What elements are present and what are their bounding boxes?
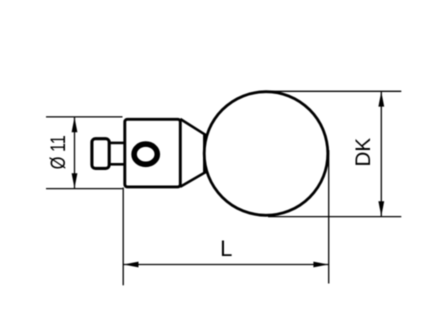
svg-text:L: L: [220, 236, 232, 261]
svg-text:DK: DK: [352, 138, 375, 167]
svg-text:Ø 11: Ø 11: [47, 135, 70, 169]
